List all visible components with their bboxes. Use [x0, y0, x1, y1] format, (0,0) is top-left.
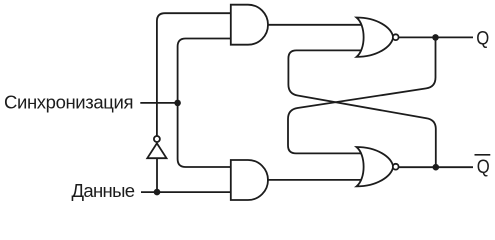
- overline of Qbar: [475, 154, 491, 156]
- wire G4 output to Qbar: [399, 166, 473, 168]
- wire G3 output to Q: [399, 36, 473, 38]
- node clock junction: [174, 100, 181, 107]
- NOR gate G4 output bubble: [393, 164, 399, 170]
- svg-text:Q: Q: [477, 157, 490, 178]
- svg-text:Синхронизация: Синхронизация: [4, 92, 134, 113]
- wire Qbar feedback to NOR G3 lower input: [288, 50, 435, 167]
- wire G1 output to NOR G3 top input: [268, 24, 364, 26]
- node Q junction: [432, 34, 439, 41]
- AND gate G2 (bottom): [231, 160, 268, 200]
- svg-text:Q: Q: [476, 28, 489, 49]
- wire Q feedback to NOR G4 upper input: [288, 37, 436, 153]
- wire data junction to inverter input: [156, 158, 158, 192]
- wire inverter output to upper AND top input: [157, 13, 231, 136]
- node data junction: [154, 189, 161, 196]
- wire Данные input: [141, 191, 231, 193]
- wire clock vertical to lower AND input: [178, 103, 231, 167]
- NOR gate G4 (bottom) body: [357, 147, 394, 186]
- NOR gate G3 output bubble: [393, 34, 399, 40]
- svg-text:Данные: Данные: [72, 180, 136, 201]
- NOR gate G3 (top) body: [357, 18, 394, 57]
- wire clock vertical to upper AND input: [178, 39, 231, 103]
- inverter U1 output bubble: [154, 136, 160, 142]
- wire G2 output to NOR G4 bottom input: [267, 179, 364, 181]
- AND gate G1 (top): [231, 5, 268, 45]
- inverter U1 triangle: [147, 143, 166, 158]
- wire Синхронизация input: [140, 102, 177, 104]
- node Qbar junction: [433, 164, 440, 171]
